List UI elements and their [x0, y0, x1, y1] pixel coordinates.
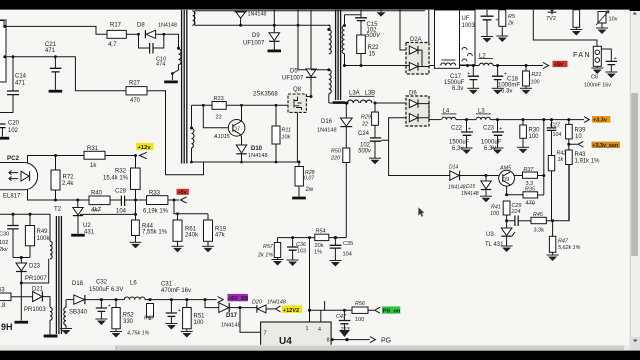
svg-text:U3: U3 — [486, 232, 494, 238]
svg-text:6,19k 1%: 6,19k 1% — [143, 209, 169, 215]
svg-text:104: 104 — [116, 209, 127, 215]
svg-text:+5v: +5v — [554, 62, 563, 68]
svg-text:1N4148: 1N4148 — [267, 300, 286, 306]
svg-text:D20: D20 — [252, 300, 262, 306]
svg-text:474: 474 — [156, 62, 165, 68]
svg-text:8: 8 — [327, 338, 330, 344]
svg-text:R17: R17 — [110, 23, 122, 29]
svg-text:20k: 20k — [315, 243, 324, 249]
svg-text:9H: 9H — [1, 322, 13, 332]
svg-text:0,07: 0,07 — [304, 176, 315, 182]
svg-text:+12v: +12v — [138, 145, 152, 151]
svg-text:104: 104 — [343, 252, 352, 258]
svg-text:R57: R57 — [263, 244, 274, 250]
svg-text:C23: C23 — [483, 126, 495, 132]
svg-text:47k: 47k — [215, 233, 226, 239]
svg-text:C28: C28 — [115, 189, 127, 195]
svg-text:PS_on: PS_on — [383, 309, 401, 315]
svg-text:240k: 240k — [185, 233, 199, 239]
svg-text:PR1007: PR1007 — [25, 276, 47, 282]
svg-text:500V: 500V — [366, 33, 381, 39]
svg-text:1N4148: 1N4148 — [461, 191, 479, 197]
svg-text:R37: R37 — [524, 167, 535, 173]
svg-text:AM5: AM5 — [499, 166, 512, 172]
svg-text:C30: C30 — [0, 232, 9, 238]
svg-text:+3,3v: +3,3v — [593, 118, 608, 124]
svg-text:22: 22 — [361, 122, 368, 128]
svg-text:2k 1%: 2k 1% — [257, 253, 273, 259]
svg-text:1500uF: 1500uF — [449, 140, 470, 146]
svg-text:102: 102 — [8, 128, 19, 134]
svg-text:100: 100 — [490, 211, 499, 217]
svg-text:T2: T2 — [54, 207, 62, 213]
svg-text:7,55k 1%: 7,55k 1% — [142, 230, 168, 236]
svg-text:1N4148: 1N4148 — [448, 185, 466, 191]
svg-text:22: 22 — [216, 115, 222, 121]
svg-text:EL817: EL817 — [3, 194, 21, 200]
svg-text:Q7: Q7 — [233, 127, 240, 133]
svg-text:100: 100 — [194, 320, 205, 326]
svg-text:D10: D10 — [251, 146, 263, 152]
svg-text:L3A: L3A — [349, 91, 360, 97]
svg-text:470: 470 — [130, 98, 141, 104]
svg-text:PC2: PC2 — [7, 155, 20, 162]
svg-text:C24: C24 — [358, 131, 370, 137]
svg-text:471: 471 — [15, 81, 26, 87]
svg-text:2kv: 2kv — [0, 247, 8, 253]
svg-text:500v: 500v — [358, 149, 372, 155]
svg-text:470: 470 — [526, 201, 535, 207]
svg-text:103: 103 — [297, 249, 306, 255]
svg-text:1000uF: 1000uF — [481, 140, 502, 146]
svg-text:D18: D18 — [72, 281, 84, 287]
svg-text:1k: 1k — [558, 157, 564, 163]
svg-text:D21: D21 — [32, 287, 44, 293]
svg-text:R30: R30 — [529, 128, 541, 134]
svg-text:4,7: 4,7 — [108, 42, 117, 48]
svg-text:7V2: 7V2 — [546, 16, 556, 22]
svg-text:R56: R56 — [355, 301, 365, 307]
svg-text:C22: C22 — [451, 126, 463, 132]
svg-text:10v: 10v — [609, 17, 618, 23]
svg-text:10: 10 — [575, 134, 582, 140]
svg-text:UF: UF — [462, 16, 470, 22]
svg-text:R40: R40 — [91, 191, 103, 197]
svg-text:R31: R31 — [87, 146, 99, 152]
svg-text:102: 102 — [0, 240, 8, 246]
svg-text:C36: C36 — [296, 242, 306, 248]
svg-text:R47: R47 — [558, 239, 569, 245]
svg-text:3,3k: 3,3k — [534, 228, 545, 234]
svg-text:100: 100 — [355, 317, 364, 323]
svg-text:+12V2: +12V2 — [283, 308, 299, 314]
svg-text:PR1003: PR1003 — [24, 307, 46, 313]
svg-text:R42: R42 — [557, 151, 567, 157]
svg-text:+: + — [467, 71, 470, 77]
svg-text:+3,3v_sen: +3,3v_sen — [592, 143, 618, 149]
svg-text:R72: R72 — [63, 175, 75, 181]
svg-text:100: 100 — [529, 134, 540, 140]
svg-text:1N4148: 1N4148 — [221, 323, 241, 329]
svg-text:R45: R45 — [533, 212, 544, 218]
svg-text:1%: 1% — [314, 250, 322, 256]
svg-text:+: + — [108, 303, 111, 309]
svg-text:R51: R51 — [194, 314, 206, 320]
svg-text:D15: D15 — [466, 184, 475, 190]
svg-text:D2A: D2A — [410, 37, 422, 43]
svg-text:431: 431 — [84, 230, 95, 236]
svg-text:R33: R33 — [149, 191, 161, 197]
svg-text:R39: R39 — [575, 128, 587, 134]
svg-text:5,62k 1%: 5,62k 1% — [558, 245, 581, 251]
svg-text:2,4k: 2,4k — [62, 181, 74, 187]
svg-text:D23: D23 — [29, 264, 41, 270]
svg-text:6.3V: 6.3V — [484, 146, 496, 152]
svg-text:D9: D9 — [252, 33, 260, 39]
svg-text:1N4148: 1N4148 — [158, 23, 177, 29]
svg-text:D17: D17 — [226, 313, 238, 319]
svg-text:1N4148: 1N4148 — [248, 12, 267, 18]
svg-text:A1015: A1015 — [213, 134, 231, 140]
svg-text:6,8: 6,8 — [0, 303, 6, 309]
svg-text:330: 330 — [123, 319, 134, 325]
svg-text:UF1007: UF1007 — [282, 76, 304, 82]
svg-text:2SK3568: 2SK3568 — [253, 92, 278, 98]
svg-text:100k: 100k — [37, 236, 51, 242]
svg-text:D6: D6 — [409, 91, 417, 97]
svg-text:15: 15 — [369, 52, 376, 58]
svg-text:SB340: SB340 — [69, 310, 88, 316]
svg-text:L3B: L3B — [365, 91, 376, 97]
svg-text:+5v: +5v — [178, 190, 187, 196]
svg-text:1: 1 — [306, 326, 309, 332]
svg-text:4: 4 — [318, 327, 321, 333]
svg-text:PG: PG — [381, 338, 391, 345]
svg-text:D14: D14 — [449, 165, 458, 171]
svg-text:R49: R49 — [37, 229, 49, 235]
svg-text:1,91k 1%: 1,91k 1% — [575, 159, 601, 165]
svg-text:+: + — [614, 56, 617, 62]
svg-text:R27: R27 — [129, 81, 141, 87]
svg-text:6,3v: 6,3v — [452, 146, 463, 152]
svg-text:R67: R67 — [144, 316, 155, 322]
svg-text:Q8: Q8 — [293, 87, 302, 93]
svg-text:C47: C47 — [336, 314, 347, 320]
svg-text:C35: C35 — [343, 241, 353, 247]
svg-text:C14: C14 — [15, 74, 27, 80]
svg-text:100mF 16v: 100mF 16v — [584, 83, 611, 89]
svg-text:R23: R23 — [214, 96, 224, 102]
svg-text:220: 220 — [330, 156, 340, 162]
svg-text:104: 104 — [553, 132, 562, 138]
svg-text:L6: L6 — [130, 281, 137, 287]
svg-text:+: + — [496, 18, 499, 24]
svg-text:15,4k 1%: 15,4k 1% — [103, 176, 129, 182]
svg-text:R22: R22 — [368, 45, 380, 51]
svg-text:6.3v: 6.3v — [501, 89, 512, 95]
svg-text:470mF 16v: 470mF 16v — [161, 288, 191, 294]
svg-text:D16: D16 — [321, 119, 333, 125]
svg-text:D8: D8 — [137, 23, 145, 29]
svg-text:R43: R43 — [575, 152, 587, 158]
svg-text:R5: R5 — [508, 14, 516, 20]
svg-text:224: 224 — [511, 209, 521, 215]
svg-text:R32: R32 — [115, 169, 127, 175]
svg-text:UF1007: UF1007 — [243, 41, 265, 47]
svg-text:R21: R21 — [532, 72, 542, 78]
svg-text:10k: 10k — [282, 135, 291, 141]
svg-text:C31: C31 — [161, 282, 173, 288]
svg-text:R35: R35 — [525, 187, 536, 193]
svg-text:FAN: FAN — [573, 52, 591, 59]
svg-text:R29: R29 — [361, 115, 371, 121]
svg-text:1500uF 6.3V: 1500uF 6.3V — [89, 287, 123, 293]
svg-text:1003: 1003 — [462, 23, 476, 29]
svg-text:2k: 2k — [507, 21, 514, 27]
svg-text:U2: U2 — [83, 223, 91, 229]
svg-text:TL 431: TL 431 — [485, 242, 504, 248]
svg-text:53: 53 — [0, 288, 5, 294]
svg-text:4,75k 1%: 4,75k 1% — [127, 331, 150, 337]
svg-text:+: + — [178, 308, 181, 314]
svg-text:C32: C32 — [96, 280, 108, 286]
svg-text:1N4148: 1N4148 — [317, 128, 337, 134]
svg-text:D5: D5 — [290, 69, 298, 75]
svg-text:7: 7 — [264, 331, 267, 337]
svg-text:1N4148: 1N4148 — [248, 153, 268, 159]
svg-text:R50: R50 — [331, 149, 341, 155]
svg-text:R52: R52 — [123, 313, 135, 319]
svg-text:C20: C20 — [8, 121, 20, 127]
svg-text:R41: R41 — [491, 205, 501, 211]
svg-text:1k: 1k — [90, 163, 97, 169]
svg-text:100: 100 — [531, 80, 540, 86]
svg-text:4k7: 4k7 — [91, 208, 101, 214]
svg-text:471: 471 — [45, 48, 56, 54]
svg-text:R54: R54 — [316, 229, 326, 235]
svg-text:2w: 2w — [306, 187, 314, 193]
svg-text:C6: C6 — [591, 75, 598, 81]
svg-text:6.3v: 6.3v — [452, 86, 463, 92]
svg-text:+5V_SB: +5V_SB — [228, 296, 248, 302]
svg-text:R11: R11 — [282, 128, 292, 134]
